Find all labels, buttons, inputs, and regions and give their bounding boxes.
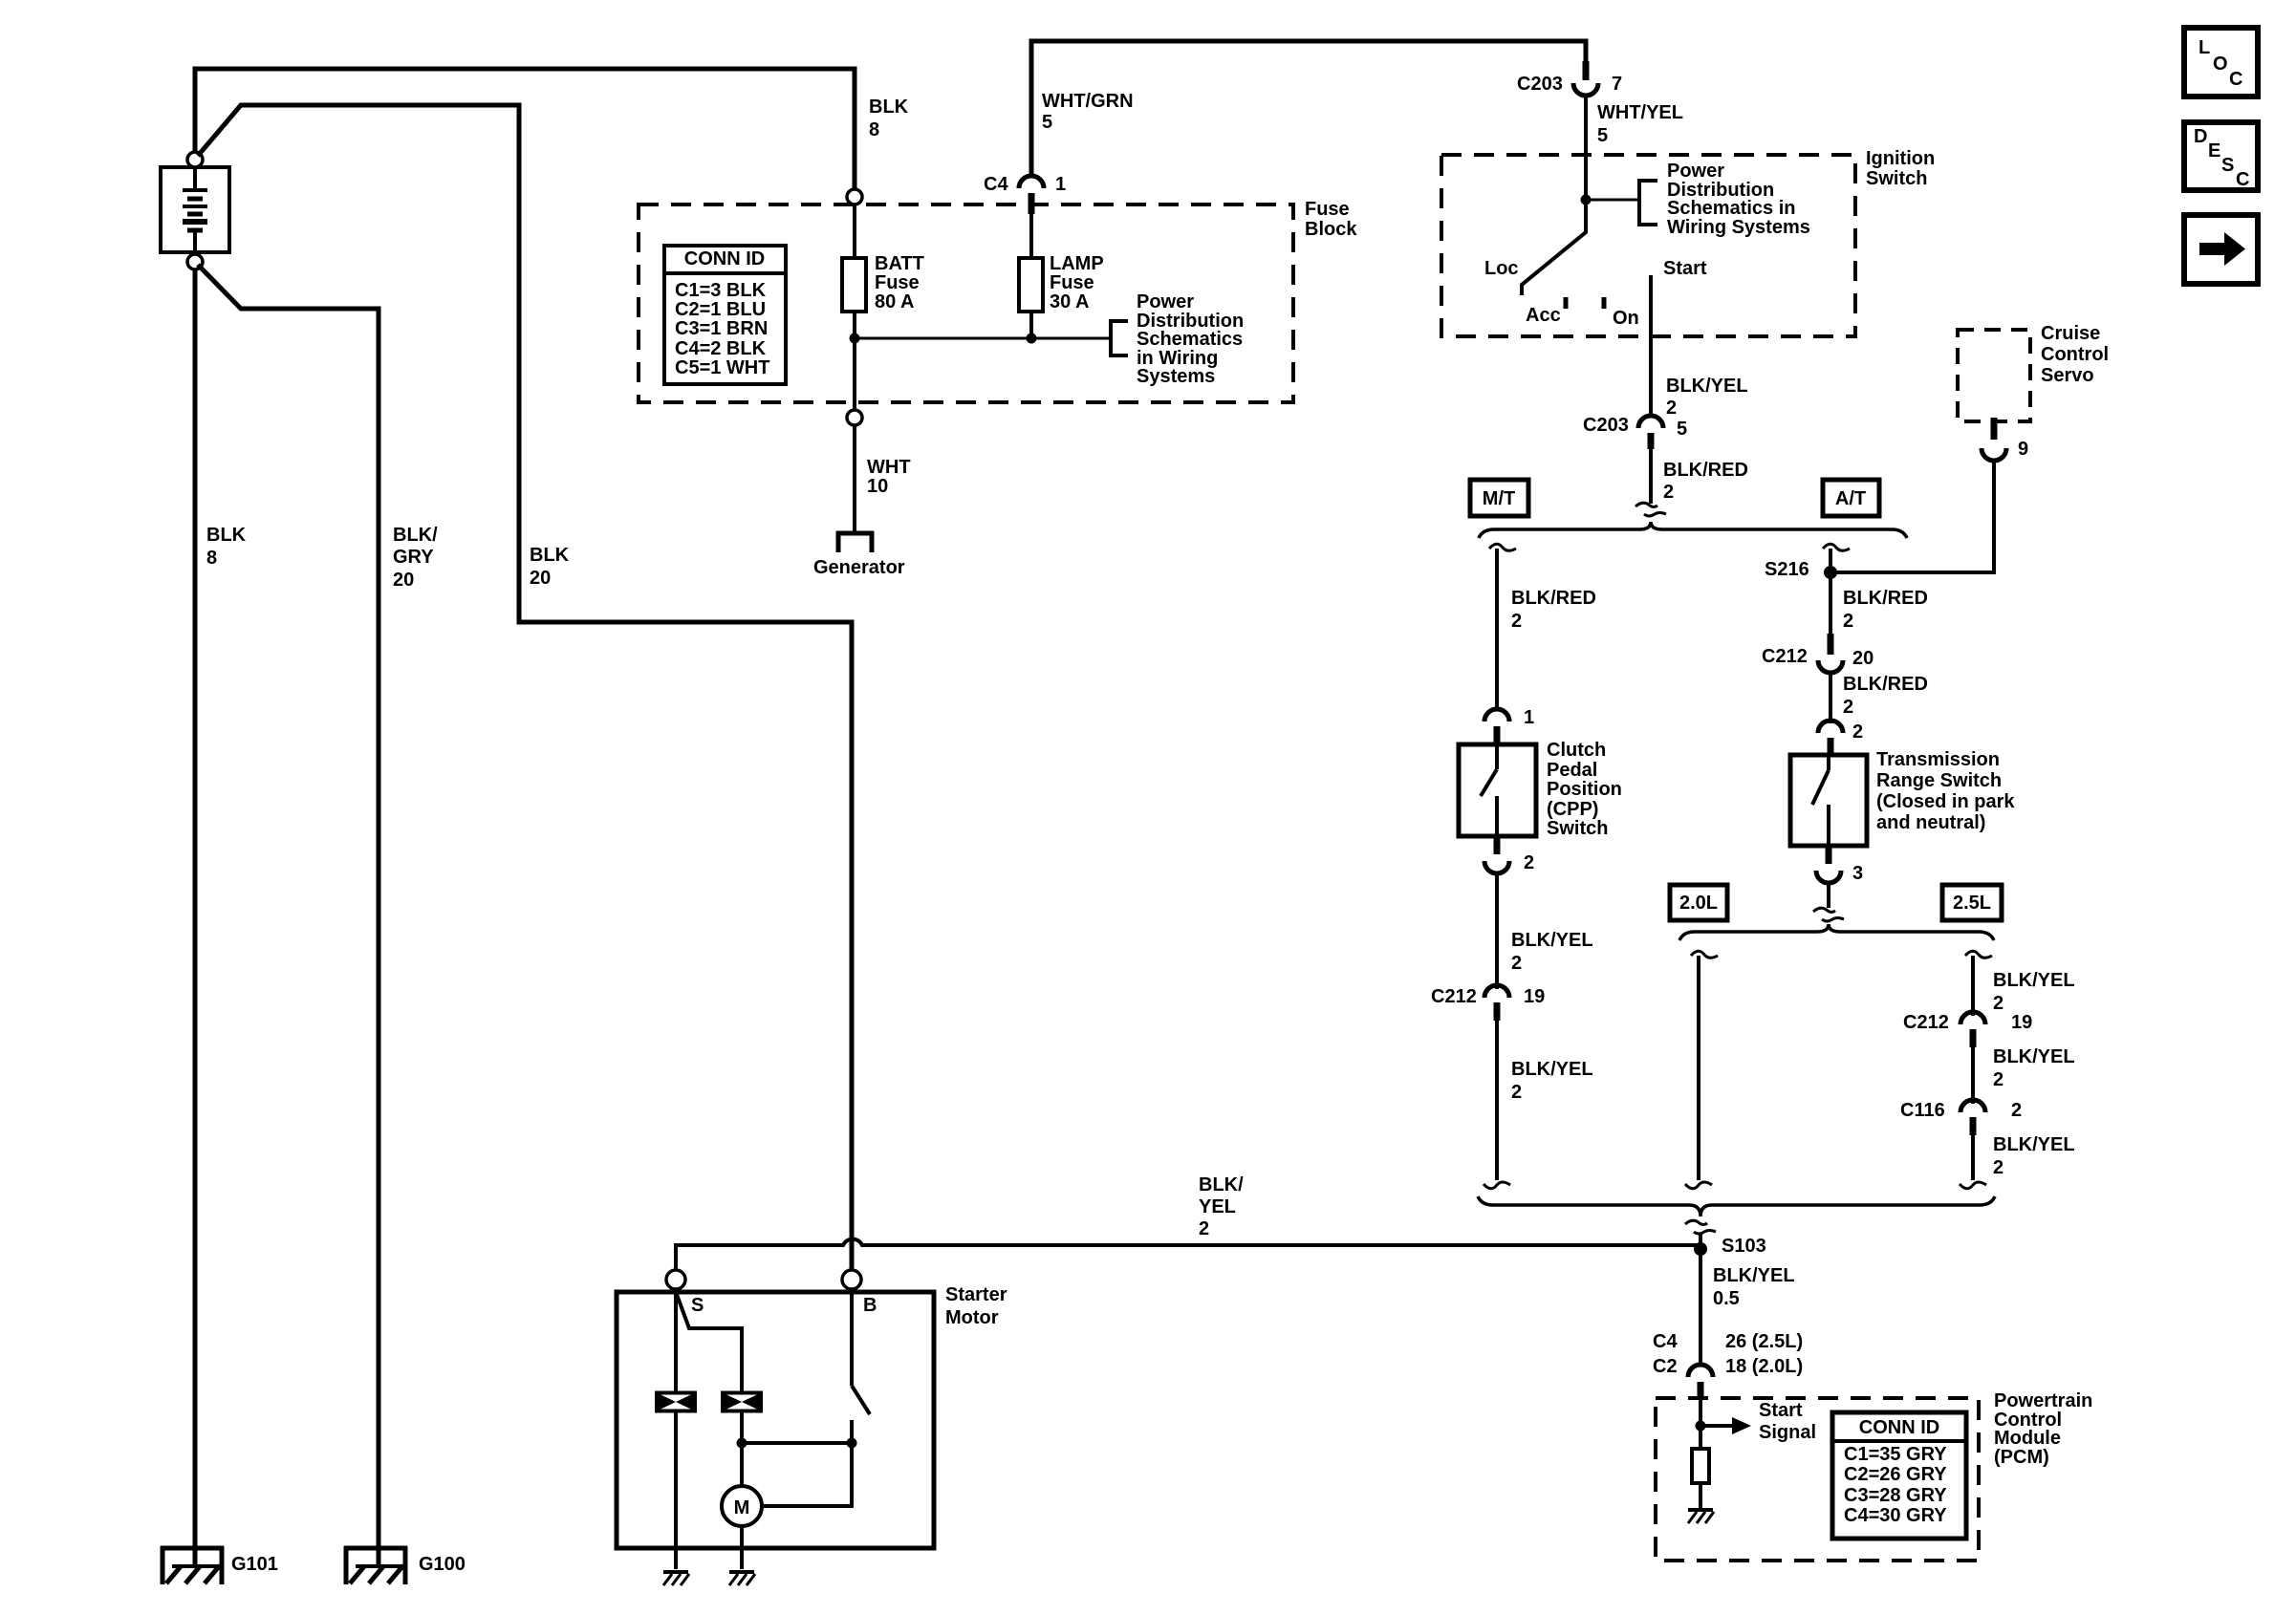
wire BLK/YEL 2 mid <box>1973 1046 2075 1104</box>
connector C4/C2 PCM <box>1653 1331 1803 1399</box>
svg-text:BLK/RED: BLK/RED <box>1843 674 1928 695</box>
svg-text:2: 2 <box>1666 398 1677 419</box>
svg-text:2: 2 <box>1663 482 1674 503</box>
svg-text:2: 2 <box>1843 611 1853 632</box>
svg-text:BLK: BLK <box>869 97 909 118</box>
svg-text:0.5: 0.5 <box>1713 1288 1740 1309</box>
solenoid winding 2 <box>723 1393 761 1411</box>
powertrain control module box <box>1656 1398 1979 1561</box>
svg-text:C212: C212 <box>1431 986 1477 1007</box>
svg-text:Servo: Servo <box>2041 365 2094 386</box>
svg-text:BLK/YEL: BLK/YEL <box>1713 1265 1795 1286</box>
wire BLK/RED 2 below S216 <box>1830 572 1928 634</box>
svg-text:(CPP): (CPP) <box>1547 799 1598 820</box>
svg-text:C116: C116 <box>1900 1100 1945 1121</box>
solenoid winding 2 wire <box>740 1410 744 1443</box>
starter motor box <box>617 1292 934 1548</box>
svg-text:C4: C4 <box>1653 1331 1678 1352</box>
svg-text:BLK/YEL: BLK/YEL <box>1511 1059 1593 1080</box>
connector C4 pin 1 <box>984 174 1066 214</box>
svg-text:5: 5 <box>1597 125 1608 146</box>
svg-text:CONN ID: CONN ID <box>1859 1417 1939 1438</box>
svg-text:2: 2 <box>1993 1069 2004 1090</box>
wire BLK/YEL 2 below CPP <box>1497 874 1593 989</box>
svg-text:Schematics in: Schematics in <box>1667 198 1796 219</box>
battery negative terminal <box>187 254 203 269</box>
svg-text:Power: Power <box>1137 291 1194 312</box>
label Starter Motor <box>945 1284 1007 1328</box>
label BLK 8 <box>206 525 247 569</box>
generator <box>813 531 905 578</box>
svg-text:2: 2 <box>1843 697 1853 718</box>
svg-text:10: 10 <box>867 476 888 497</box>
svg-text:5: 5 <box>1042 112 1052 133</box>
fuse BATT 80 A <box>842 205 924 410</box>
svg-text:3: 3 <box>1852 863 1863 884</box>
svg-text:Fuse: Fuse <box>875 272 920 293</box>
wire junction to motor <box>740 1443 744 1486</box>
connector pin 9 <box>1982 418 2028 461</box>
svg-text:2: 2 <box>1511 953 1522 974</box>
svg-text:Loc: Loc <box>1484 258 1519 279</box>
svg-text:2: 2 <box>1852 721 1863 743</box>
svg-text:E: E <box>2208 140 2220 161</box>
label On with tick <box>1604 297 1639 329</box>
wire below TRS <box>1827 884 1830 908</box>
terminal B starter <box>842 1270 861 1289</box>
svg-text:BATT: BATT <box>875 253 924 274</box>
svg-text:BLK/: BLK/ <box>393 525 438 546</box>
chassis ground starter solenoid <box>663 1570 688 1574</box>
svg-text:2: 2 <box>1511 611 1522 632</box>
terminal circle generator feed <box>847 410 862 425</box>
label Powertrain Control Module (PCM) <box>1994 1390 2092 1468</box>
svg-text:2: 2 <box>2011 1100 2022 1121</box>
svg-text:CONN ID: CONN ID <box>684 248 765 269</box>
svg-text:C4=30 GRY: C4=30 GRY <box>1844 1505 1947 1526</box>
svg-text:Transmission: Transmission <box>1876 749 2000 770</box>
svg-text:2: 2 <box>1199 1218 1209 1239</box>
wire A/T branch <box>1823 544 1850 566</box>
svg-text:1: 1 <box>1055 174 1066 195</box>
solenoid winding 1 <box>657 1393 695 1411</box>
conn id table (fuse block) <box>664 246 786 384</box>
connector pin 3 TRS <box>1816 846 1863 884</box>
svg-text:BLK: BLK <box>530 545 570 566</box>
power distribution reference (fuse block) <box>1111 291 1244 387</box>
svg-text:Module: Module <box>1994 1428 2061 1449</box>
label WHT/GRN 5 <box>1042 91 1134 133</box>
svg-text:LAMP: LAMP <box>1050 253 1104 274</box>
svg-text:WHT/YEL: WHT/YEL <box>1597 102 1683 123</box>
label Cruise Control Servo <box>2041 323 2109 386</box>
junction solenoid <box>737 1438 747 1449</box>
label Ignition Switch <box>1866 148 1935 189</box>
svg-text:C212: C212 <box>1903 1012 1949 1033</box>
svg-text:C4=2 BLK: C4=2 BLK <box>675 338 767 359</box>
wire BLK 8 battery to ground G101 <box>193 269 198 1548</box>
fuse LAMP 30 A <box>1019 214 1104 338</box>
svg-text:Wiring Systems: Wiring Systems <box>1667 217 1810 238</box>
wire BLK/YEL 2 lower <box>1973 1134 2075 1180</box>
svg-text:20: 20 <box>530 568 551 589</box>
solenoid link wire <box>676 1292 742 1394</box>
svg-text:Clutch: Clutch <box>1547 740 1606 761</box>
svg-text:26 (2.5L): 26 (2.5L) <box>1725 1331 1803 1352</box>
wire end 2.0L <box>1685 1182 1712 1189</box>
svg-text:Switch: Switch <box>1866 168 1927 189</box>
cruise control servo box <box>1958 330 2030 421</box>
connector pin 2 TRS <box>1818 721 1863 755</box>
svg-text:G100: G100 <box>419 1554 466 1575</box>
ground G100 <box>344 1546 466 1584</box>
wire M/T branch BLK/RED 2 <box>1489 544 1596 710</box>
svg-text:8: 8 <box>206 548 217 569</box>
svg-text:M: M <box>734 1497 750 1518</box>
fuse block <box>639 205 1293 402</box>
label BLK 8 <box>869 97 909 140</box>
svg-text:BLK/YEL: BLK/YEL <box>1511 930 1593 951</box>
svg-text:GRY: GRY <box>393 547 434 568</box>
wire solenoid to contact <box>742 1441 852 1445</box>
resistor PCM <box>1692 1449 1709 1483</box>
svg-text:Switch: Switch <box>1547 818 1608 839</box>
brace splice engines <box>1679 924 1994 940</box>
2.0L box <box>1670 885 1727 920</box>
connector C212 pin 19 (2.5L) <box>1903 1012 2032 1047</box>
svg-text:A/T: A/T <box>1835 488 1866 509</box>
wire BLK 8 battery to fuse block <box>195 69 855 189</box>
wire BLK/YEL 2 M/T lower <box>1497 1021 1593 1180</box>
svg-text:YEL: YEL <box>1199 1196 1236 1217</box>
chassis ground starter motor <box>729 1570 754 1574</box>
svg-text:C: C <box>2229 69 2242 90</box>
svg-text:BLK: BLK <box>206 525 247 546</box>
svg-text:2.5L: 2.5L <box>1953 893 1991 914</box>
svg-text:S216: S216 <box>1765 559 1809 580</box>
label BLK/GRY 20 <box>393 525 438 591</box>
svg-text:C203: C203 <box>1517 74 1563 95</box>
svg-text:WHT/GRN: WHT/GRN <box>1042 91 1134 112</box>
svg-text:C4: C4 <box>984 174 1008 195</box>
2.5L box <box>1942 885 2002 920</box>
svg-text:O: O <box>2213 54 2228 75</box>
M/T box <box>1470 480 1528 516</box>
ground G101 <box>161 1546 278 1584</box>
label BLK/ YEL 2 <box>1199 1174 1244 1239</box>
svg-text:Cruise: Cruise <box>2041 323 2100 344</box>
battery positive terminal <box>187 152 203 167</box>
svg-text:and neutral): and neutral) <box>1876 812 1985 833</box>
svg-text:S: S <box>691 1295 704 1316</box>
svg-text:5: 5 <box>1677 419 1687 440</box>
breakout start wire <box>1635 503 1657 506</box>
breakout S103 feed <box>1685 1220 1707 1224</box>
starter switch contact <box>852 1289 870 1443</box>
svg-text:Fuse: Fuse <box>1050 272 1094 293</box>
svg-text:WHT: WHT <box>867 457 911 478</box>
svg-text:Fuse: Fuse <box>1305 199 1350 220</box>
svg-text:C3=1 BRN: C3=1 BRN <box>675 318 768 339</box>
nav arrow box <box>2184 215 2258 284</box>
clutch pedal position switch <box>1459 740 1622 839</box>
splice S103 <box>1694 1236 1766 1257</box>
solenoid S branch wire <box>674 1289 678 1394</box>
svg-text:C2=1 BLU: C2=1 BLU <box>675 299 766 320</box>
svg-text:S: S <box>2221 155 2234 176</box>
svg-text:8: 8 <box>869 119 879 140</box>
svg-text:BLK/: BLK/ <box>1199 1174 1244 1195</box>
brace splice M/T A/T <box>1479 522 1907 538</box>
ignition switch box <box>1441 155 1855 336</box>
wire BLK/GRY 20 battery to ground G100 <box>198 265 379 1548</box>
wire BLK/YEL 0.5 <box>1700 1249 1795 1367</box>
wire Start / BLK/YEL 2 <box>1651 275 1748 419</box>
wire 2.0L branch <box>1691 951 1718 1180</box>
svg-text:20: 20 <box>1852 648 1874 669</box>
svg-text:Signal: Signal <box>1759 1422 1816 1443</box>
svg-text:L: L <box>2199 37 2210 58</box>
solenoid winding 1 wire to ground <box>674 1410 678 1569</box>
svg-text:Generator: Generator <box>813 557 905 578</box>
svg-text:C3=28 GRY: C3=28 GRY <box>1844 1485 1947 1506</box>
svg-text:2: 2 <box>1524 852 1534 873</box>
svg-text:C: C <box>2236 169 2249 190</box>
desc box <box>2184 122 2258 190</box>
svg-text:Systems: Systems <box>1137 366 1215 387</box>
svg-text:Start: Start <box>1759 1400 1803 1421</box>
wire BLK/RED 2 to TRS <box>1830 674 1928 723</box>
loc box <box>2184 28 2258 97</box>
svg-text:On: On <box>1613 308 1639 329</box>
svg-text:D: D <box>2194 126 2207 147</box>
transmission range switch <box>1790 749 2015 846</box>
svg-text:(PCM): (PCM) <box>1994 1447 2049 1468</box>
wire motor to contact <box>762 1446 852 1506</box>
terminal S starter <box>666 1270 685 1289</box>
connector pin 1 CPP <box>1484 707 1534 744</box>
connector C212 pin 20 <box>1762 634 1874 673</box>
svg-text:Block: Block <box>1305 219 1357 240</box>
svg-text:Schematics: Schematics <box>1137 329 1243 350</box>
connector C212 pin 19 (M/T) <box>1431 985 1545 1021</box>
connector C203 pin 7 <box>1517 61 1622 96</box>
wire WHT/YEL 5 <box>1586 97 1683 200</box>
svg-text:M/T: M/T <box>1483 488 1515 509</box>
junction contact <box>847 1438 857 1449</box>
junction batt fuse <box>850 334 860 344</box>
wire into PCM <box>1699 1399 1702 1449</box>
battery <box>161 167 229 252</box>
svg-text:Control: Control <box>2041 344 2109 365</box>
wire resistor to ground <box>1699 1483 1702 1508</box>
A/T box <box>1823 480 1879 516</box>
wire fuse junction link <box>855 337 1109 340</box>
svg-text:20: 20 <box>393 570 414 591</box>
label Fuse Block <box>1305 199 1357 240</box>
svg-text:C1=3 BLK: C1=3 BLK <box>675 280 767 301</box>
wire BLK/RED 2 <box>1651 449 1748 504</box>
svg-text:1: 1 <box>1524 707 1534 728</box>
svg-text:30 A: 30 A <box>1050 291 1090 312</box>
svg-text:Power: Power <box>1667 161 1724 182</box>
svg-text:80 A: 80 A <box>875 291 915 312</box>
svg-text:BLK/YEL: BLK/YEL <box>1993 1046 2075 1067</box>
svg-text:BLK/YEL: BLK/YEL <box>1666 376 1748 397</box>
svg-text:7: 7 <box>1612 74 1622 95</box>
svg-text:C2: C2 <box>1653 1356 1678 1377</box>
label Acc with tick <box>1526 297 1566 326</box>
svg-text:Position: Position <box>1547 779 1622 800</box>
svg-text:C5=1 WHT: C5=1 WHT <box>675 357 769 378</box>
svg-text:2: 2 <box>1511 1082 1522 1103</box>
svg-text:19: 19 <box>2011 1012 2032 1033</box>
svg-text:Pedal: Pedal <box>1547 760 1597 781</box>
svg-text:(Closed in park: (Closed in park <box>1876 791 2015 812</box>
conn id table (PCM) <box>1832 1412 1966 1539</box>
wire to S103 <box>1699 1233 1702 1245</box>
svg-text:9: 9 <box>2018 439 2028 460</box>
svg-text:Ignition: Ignition <box>1866 148 1935 169</box>
svg-text:Motor: Motor <box>945 1307 999 1328</box>
wire WHT 10 to generator <box>855 425 911 531</box>
wire 2.5L branch BLK/YEL 2 <box>1965 951 2075 1016</box>
svg-text:S103: S103 <box>1722 1236 1766 1257</box>
wire crank feed to starter S <box>676 1239 1700 1270</box>
svg-text:B: B <box>863 1295 877 1316</box>
ignition switch Loc arm <box>1484 200 1586 295</box>
svg-text:C203: C203 <box>1583 415 1629 436</box>
svg-text:G101: G101 <box>231 1554 278 1575</box>
svg-text:BLK/RED: BLK/RED <box>1843 588 1928 609</box>
wire WHT/GRN 5 lamp fuse feed <box>1031 41 1586 174</box>
svg-text:Starter: Starter <box>945 1284 1007 1305</box>
breakout TRS wire <box>1813 908 1835 912</box>
motor M <box>722 1486 762 1526</box>
brace splice to S103 <box>1478 1196 1995 1217</box>
junction start signal <box>1696 1421 1706 1432</box>
svg-text:Start: Start <box>1663 258 1707 279</box>
connector C116 pin 2 <box>1900 1100 2022 1135</box>
svg-text:BLK/YEL: BLK/YEL <box>1993 1134 2075 1155</box>
terminal circle at fuse block top <box>847 189 862 205</box>
svg-text:2: 2 <box>1993 1157 2004 1178</box>
label BLK 20 <box>530 545 570 589</box>
svg-text:18 (2.0L): 18 (2.0L) <box>1725 1356 1803 1377</box>
junction ignition feed <box>1581 195 1592 205</box>
svg-text:Acc: Acc <box>1526 305 1561 326</box>
svg-text:C212: C212 <box>1762 646 1808 667</box>
svg-text:C1=35 GRY: C1=35 GRY <box>1844 1444 1947 1465</box>
wire motor to ground <box>740 1526 744 1569</box>
svg-text:Powertrain: Powertrain <box>1994 1390 2092 1411</box>
svg-text:BLK/YEL: BLK/YEL <box>1993 970 2075 991</box>
wire S216 to cruise control servo <box>1830 461 1994 572</box>
svg-text:BLK/RED: BLK/RED <box>1663 460 1748 481</box>
wire end 2.5L <box>1960 1182 1986 1189</box>
wire BLK 20 battery to starter motor <box>198 105 852 1270</box>
svg-text:C2=26 GRY: C2=26 GRY <box>1844 1464 1947 1485</box>
svg-text:BLK/RED: BLK/RED <box>1511 588 1596 609</box>
power distribution reference (ignition) <box>1586 161 1810 238</box>
svg-text:2.0L: 2.0L <box>1679 893 1718 914</box>
wire end M/T <box>1484 1182 1510 1189</box>
start signal arrow <box>1700 1400 1816 1443</box>
chassis ground PCM <box>1688 1508 1713 1512</box>
connector pin 2 CPP <box>1484 836 1534 873</box>
svg-text:2: 2 <box>1993 993 2004 1014</box>
junction lamp fuse <box>1027 334 1037 344</box>
splice S216 <box>1765 559 1837 580</box>
svg-text:19: 19 <box>1524 986 1545 1007</box>
svg-text:Range Switch: Range Switch <box>1876 770 2002 791</box>
connector C203 pin 5 <box>1583 415 1687 449</box>
